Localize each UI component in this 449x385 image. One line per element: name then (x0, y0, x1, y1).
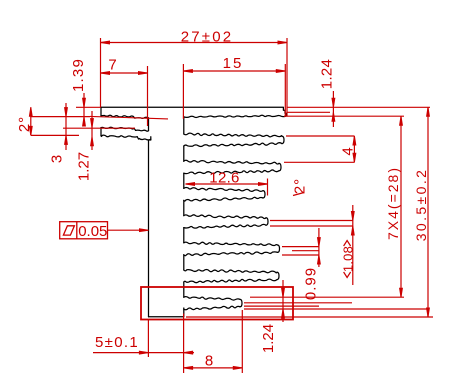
svg-text:27±02: 27±02 (181, 29, 234, 46)
svg-text:8: 8 (205, 353, 214, 370)
svg-text:3: 3 (49, 154, 66, 163)
svg-text:15: 15 (223, 55, 244, 72)
svg-text:1.24: 1.24 (260, 324, 277, 353)
svg-text:4: 4 (340, 146, 357, 155)
svg-text:7: 7 (108, 57, 117, 74)
svg-text:7X4(=28): 7X4(=28) (385, 166, 401, 240)
svg-text:0.05: 0.05 (78, 223, 107, 240)
svg-text:1.08: 1.08 (341, 246, 356, 272)
svg-text:2°: 2° (292, 178, 309, 194)
svg-text:2°: 2° (16, 116, 33, 132)
svg-text:5±0.1: 5±0.1 (95, 334, 139, 351)
svg-text:12.6: 12.6 (209, 169, 239, 186)
svg-text:1.24: 1.24 (319, 59, 336, 89)
svg-text:30.5±0.2: 30.5±0.2 (413, 168, 429, 242)
svg-text:0.99: 0.99 (303, 267, 320, 300)
svg-text:1.27: 1.27 (76, 152, 93, 181)
svg-text:1.39: 1.39 (70, 58, 87, 92)
